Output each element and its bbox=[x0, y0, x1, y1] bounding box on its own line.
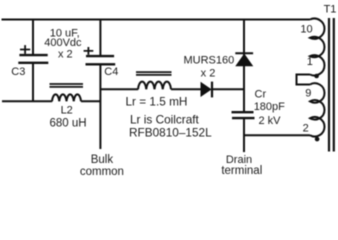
svg-text:common: common bbox=[80, 166, 124, 178]
wire right vertical top bbox=[243, 20, 245, 112]
wire bulk common vertical bbox=[99, 65, 101, 149]
core Lr bbox=[136, 72, 172, 75]
svg-text:2 kV: 2 kV bbox=[259, 115, 282, 127]
svg-text:9: 9 bbox=[305, 87, 311, 99]
capacitor C3 bbox=[18, 55, 48, 63]
svg-text:terminal: terminal bbox=[221, 165, 262, 177]
svg-text:x 2: x 2 bbox=[58, 49, 73, 61]
wire pin1 to pin9 loop bbox=[297, 75, 311, 85]
polarity plus C4 bbox=[84, 47, 94, 55]
phase dot pin2 bbox=[315, 137, 320, 142]
svg-text:Lr = 1.5 mH: Lr = 1.5 mH bbox=[126, 94, 188, 108]
svg-text:Bulk: Bulk bbox=[91, 154, 114, 166]
wire C4 top lead bbox=[99, 20, 101, 56]
svg-text:C4: C4 bbox=[104, 66, 118, 78]
wire pin 2 horizontal bbox=[244, 134, 310, 136]
core T1 bbox=[329, 18, 334, 152]
wire Cr bottom lead drain stub bbox=[243, 119, 245, 152]
core L2 bbox=[50, 84, 84, 87]
polarity plus C3 bbox=[20, 45, 30, 54]
wire C3 top lead bbox=[32, 20, 34, 55]
capacitor Cr bbox=[232, 112, 255, 118]
wire Lr left segment bbox=[100, 88, 138, 90]
svg-text:10: 10 bbox=[300, 23, 312, 35]
wire top bus bbox=[2, 19, 311, 21]
wire bulk bottom rail bbox=[2, 100, 52, 102]
transformer T1 secondary winding pins 9-2 bbox=[310, 83, 324, 136]
svg-text:180pF: 180pF bbox=[254, 101, 285, 113]
svg-text:L2: L2 bbox=[61, 105, 73, 117]
svg-text:Cr: Cr bbox=[255, 89, 267, 101]
inductor Lr bbox=[138, 82, 171, 90]
svg-text:MURS160: MURS160 bbox=[184, 54, 235, 66]
wire C3 bottom lead bbox=[32, 64, 34, 101]
diode D1 MURS160 bbox=[201, 82, 212, 98]
transformer T1 primary winding pins 10-1 bbox=[310, 19, 324, 76]
phase dot pin1 bbox=[314, 74, 319, 79]
wire D1 to node bbox=[213, 88, 244, 90]
svg-text:RFB0810–152L: RFB0810–152L bbox=[129, 126, 212, 140]
wire Lr to diode D1 bbox=[171, 88, 201, 90]
svg-text:2: 2 bbox=[303, 123, 309, 135]
diode D2 bbox=[235, 53, 253, 66]
svg-text:680 uH: 680 uH bbox=[49, 117, 86, 129]
svg-text:Lr is Coilcraft: Lr is Coilcraft bbox=[130, 113, 200, 127]
svg-text:T1: T1 bbox=[324, 4, 337, 16]
inductor L2 bbox=[52, 94, 81, 101]
svg-text:1: 1 bbox=[307, 56, 313, 68]
capacitor C4 bbox=[86, 56, 116, 64]
svg-text:C3: C3 bbox=[11, 66, 25, 78]
svg-text:x 2: x 2 bbox=[201, 68, 216, 80]
wire L2 to bulk node bbox=[81, 100, 100, 102]
svg-text:400Vdc: 400Vdc bbox=[44, 37, 82, 49]
